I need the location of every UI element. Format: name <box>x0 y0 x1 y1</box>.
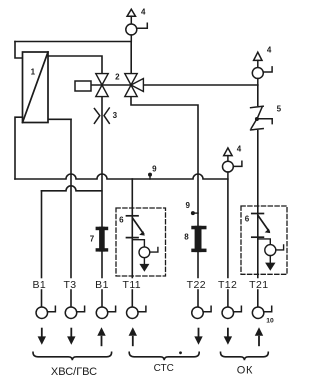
svg-text:T3: T3 <box>63 279 76 291</box>
regulator 6 right sensor branch <box>258 239 284 263</box>
svg-text:ОК: ОК <box>237 364 254 376</box>
wire B1 riser lower segment <box>101 290 103 307</box>
wire three-way valve bottom to T22 riser <box>131 97 198 278</box>
wire left lower stub from heat exchanger <box>15 117 23 179</box>
three-way valve 2 <box>125 74 144 97</box>
svg-text:6: 6 <box>119 215 124 224</box>
valve 2 actuator box <box>75 81 91 91</box>
svg-text:4: 4 <box>141 8 146 17</box>
svg-text:T21: T21 <box>249 279 268 291</box>
wire heat exchanger top-right to valve 2 <box>48 56 102 74</box>
wire top bus <box>15 41 131 43</box>
svg-text:10: 10 <box>266 317 274 324</box>
heat exchanger 1 <box>23 52 49 123</box>
svg-text:4: 4 <box>267 46 272 55</box>
valve 2 (two-way control valve) <box>96 74 108 97</box>
svg-text:9: 9 <box>152 165 157 174</box>
regulator 6 left sensor branch <box>132 240 158 264</box>
svg-text:B1: B1 <box>32 279 46 291</box>
regulator 5 <box>251 106 273 130</box>
regulator 6 left internals <box>127 216 144 238</box>
svg-text:2: 2 <box>115 73 120 82</box>
brace XBC/GBC <box>33 352 112 360</box>
flow arrow T11 up <box>129 327 137 345</box>
svg-text:3: 3 <box>113 111 118 120</box>
wire T11 riser lower segment <box>131 290 133 307</box>
wire B1 left riser lower segment <box>41 290 43 307</box>
sensor point 9 on bus1 <box>148 173 152 177</box>
wire T12 riser lower segment <box>227 290 229 307</box>
strainer 8 <box>191 226 206 252</box>
air vent 4 top (triangle, circle, tail) <box>126 9 148 41</box>
svg-text:T22: T22 <box>187 279 206 291</box>
valve 3 (chevron valve) <box>94 108 109 123</box>
terminal circle B1 <box>36 306 55 318</box>
regulator 6 left discharge arrow <box>139 264 149 272</box>
air vent 4 middle <box>223 148 242 179</box>
wire heat exchanger bottom-right to T3 riser corner <box>48 118 71 120</box>
terminal circle T12 <box>222 306 241 318</box>
svg-text:8: 8 <box>184 233 189 242</box>
flow arrow T22 down <box>194 329 202 345</box>
svg-text:4: 4 <box>237 145 242 154</box>
flow arrow B1 down <box>38 329 46 345</box>
svg-text:7: 7 <box>90 234 95 243</box>
wire T3 riser lower segment <box>70 290 72 307</box>
flow arrow B1 up <box>97 327 105 345</box>
regulator 6 right internals <box>252 214 269 238</box>
flow arrow T3 down <box>67 329 75 345</box>
wire T22 riser lower segment <box>197 290 199 307</box>
wire right riser from element 5 down <box>257 131 259 278</box>
svg-text:ХВС/ГВС: ХВС/ГВС <box>51 366 97 378</box>
wire T21 riser lower segment <box>257 290 259 307</box>
wire bus1 horizontal with bridges, corner down to T12 riser <box>15 174 228 278</box>
terminal circle T3 <box>65 306 84 318</box>
flow arrow T21 up <box>255 327 263 345</box>
dashed box regulator 6 left <box>116 208 166 276</box>
terminal circle B1 second <box>96 306 115 318</box>
wire T3 riser <box>70 119 72 277</box>
flow arrow T12 down <box>224 329 232 345</box>
terminal circle T21 <box>252 306 271 318</box>
regulator 6 right discharge arrow <box>265 263 275 271</box>
wire B1 riser through valve 3 <box>101 97 103 278</box>
wire three-way valve top stem <box>130 42 132 74</box>
wire three-way valve side outlet to right riser <box>143 84 257 86</box>
wire left upper stub to heat exchanger <box>15 42 23 59</box>
brace CTC <box>129 352 199 360</box>
svg-text:T11: T11 <box>123 279 142 291</box>
svg-text:1: 1 <box>31 67 36 76</box>
svg-text:T12: T12 <box>218 279 237 291</box>
terminal circle T22 <box>192 306 211 318</box>
regulator 6 left arrowhead <box>139 231 145 236</box>
svg-text:6: 6 <box>245 214 250 223</box>
dashed box regulator 6 right <box>241 206 287 274</box>
wire bus2 from B1 riser corner with bridge <box>42 186 102 191</box>
svg-text:СТС: СТС <box>154 363 174 374</box>
speck on CTC brace <box>179 351 182 354</box>
strainer 7 <box>96 227 109 252</box>
svg-text:9: 9 <box>185 201 190 210</box>
wire B1 left riser <box>41 191 43 278</box>
wire right riser upper segment to element 5 <box>257 85 259 105</box>
terminal circle T11 <box>127 306 146 318</box>
wire T11 riser from bus1 <box>131 179 133 278</box>
brace OK <box>221 352 269 360</box>
wire valve2 to three-way valve pipe <box>91 84 131 86</box>
sensor point 9 on T22 riser <box>191 211 195 215</box>
air vent 4 top-right <box>252 52 272 85</box>
svg-text:5: 5 <box>277 105 282 114</box>
regulator 6 right arrowhead <box>265 229 271 234</box>
svg-text:B1: B1 <box>95 279 109 291</box>
